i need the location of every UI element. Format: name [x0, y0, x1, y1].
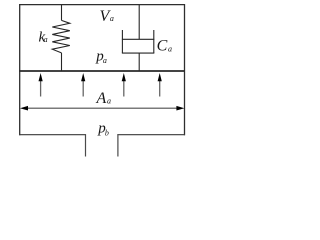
svg-text:a: a [44, 35, 48, 44]
pressure arrow 4 [158, 73, 162, 97]
spring k_a [52, 5, 70, 71]
label p_a (chamber pressure) [95, 48, 107, 65]
wire: port neck right wall [117, 134, 119, 156]
pressure arrow 3 [122, 73, 126, 97]
svg-text:a: a [107, 96, 111, 105]
svg-text:a: a [103, 56, 107, 65]
svg-text:a: a [168, 44, 172, 53]
damper C_a [122, 5, 154, 71]
label A_a (piston area) [96, 90, 112, 107]
svg-text:b: b [105, 129, 109, 138]
piston plate (area A_a) [19, 70, 185, 72]
label p_b (back pressure) [97, 121, 109, 138]
label V_a (gas volume) [100, 8, 114, 25]
label k_a [39, 29, 48, 45]
svg-text:a: a [110, 14, 114, 23]
pressure arrow 1 [39, 73, 43, 97]
wire: left wall [19, 4, 21, 135]
wire: port neck left wall [85, 134, 87, 156]
svg-text:C: C [157, 38, 168, 55]
wire: top wall of chamber [19, 4, 185, 6]
dimension arrow A_a (double headed) [20, 106, 184, 111]
pressure arrow 2 [81, 73, 85, 97]
wire: bottom wall left segment [19, 134, 86, 136]
wire: right wall [184, 4, 186, 135]
label C_a [157, 38, 172, 55]
svg-text:A: A [96, 90, 107, 107]
wire: bottom wall right segment [117, 134, 185, 136]
